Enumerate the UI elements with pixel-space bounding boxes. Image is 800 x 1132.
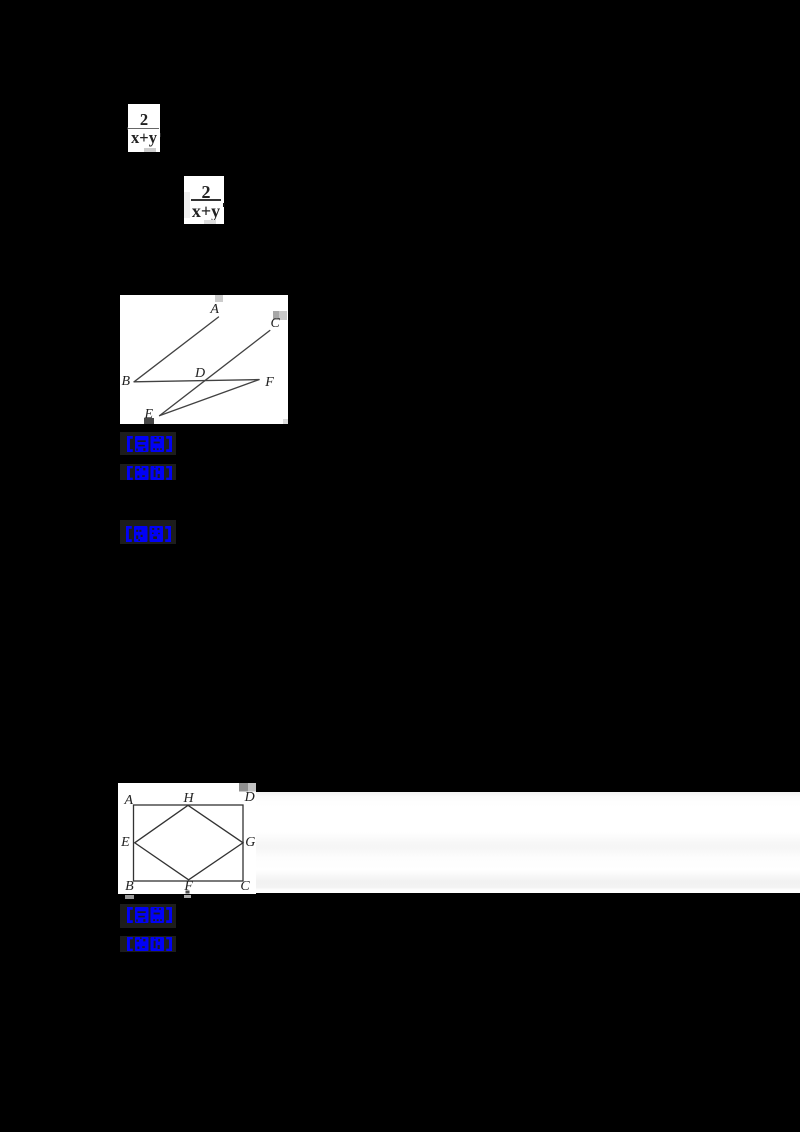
- svg-text:H: H: [183, 791, 195, 806]
- svg-text:D: D: [244, 790, 255, 805]
- svg-text:E: E: [144, 407, 154, 422]
- svg-text:C: C: [271, 316, 281, 331]
- svg-text:G: G: [245, 835, 255, 850]
- svg-text:B: B: [125, 879, 134, 894]
- svg-text:C: C: [240, 879, 250, 894]
- svg-text:E: E: [120, 835, 130, 850]
- svg-text:B: B: [122, 374, 131, 389]
- svg-text:F: F: [264, 375, 274, 390]
- svg-text:D: D: [194, 366, 205, 381]
- svg-text:A: A: [209, 302, 219, 317]
- svg-text:A: A: [124, 793, 134, 808]
